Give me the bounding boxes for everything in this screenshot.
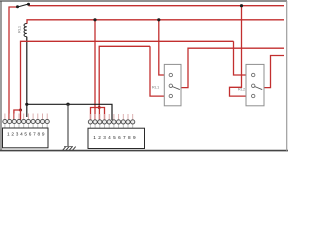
wire red drop to connector pin 4 — [20, 110, 22, 120]
connector J2 pin stems — [90, 114, 132, 120]
svg-text:123456789: 123456789 — [7, 132, 46, 137]
relay RL2 pin top — [252, 73, 255, 76]
wire black drop to connector 1 pin — [26, 104, 28, 117]
node junction H2 x158.8 — [157, 18, 160, 21]
wire red H2 drop to relay RL1 top contact — [159, 20, 169, 75]
node junction H1 x241.5 — [240, 4, 243, 7]
relay RL1 contact box — [164, 64, 181, 105]
border frame bottom — [0, 150, 288, 152]
wire red H3 drop to relay RL2 top contact — [234, 41, 252, 75]
border frame top — [0, 0, 287, 2]
connector J2 lower stubs — [90, 124, 132, 128]
connector J1 pads — [3, 119, 50, 123]
node junction above connector 2 — [98, 106, 101, 109]
wire red branch pin3 connector 2 — [98, 108, 100, 121]
inductor coil RL1 — [24, 24, 27, 37]
wire red rail H2 — [27, 20, 284, 24]
wire grey ground drop — [67, 104, 69, 146]
connector J1 body — [3, 128, 49, 148]
border frame right — [286, 1, 288, 151]
switch contact node left — [16, 5, 19, 8]
wire black coil to bottom bus — [26, 37, 28, 105]
relay RL1 lever — [172, 87, 180, 90]
svg-text:123456789: 123456789 — [93, 135, 138, 140]
switch contact node right — [27, 3, 30, 6]
svg-text:RL1: RL1 — [152, 84, 160, 89]
node junction black bus left — [25, 103, 28, 106]
relay RL1 pin top — [169, 73, 172, 76]
wire red jog to connector pin 3 — [14, 110, 21, 120]
connector J1 lower stubs — [5, 124, 47, 128]
svg-text:RL2: RL2 — [238, 87, 246, 92]
wire red rail H6 from relay RL2 common — [264, 56, 284, 88]
wire red rail H5 from relay RL1 common — [181, 48, 284, 87]
wire red rail H3 — [21, 41, 234, 110]
relay RL2 contact box — [246, 64, 264, 105]
relay RL1 pin common — [169, 84, 172, 87]
ground symbol — [63, 147, 76, 151]
node junction H3 bottom — [19, 109, 22, 112]
wire red top rail H1 — [29, 5, 285, 7]
wire red H2 drop to connector 2 pin2 — [94, 20, 96, 120]
svg-text:RL1: RL1 — [17, 25, 22, 33]
node junction H2 x94.7 — [93, 18, 96, 21]
wire red H4 to relay RL1 NC contact — [150, 46, 169, 96]
wire red branch pin4 connector 2 — [99, 108, 104, 121]
border frame left — [0, 1, 2, 151]
wire red rail H4 — [99, 46, 150, 107]
connector J2 pads — [88, 120, 134, 124]
wire black bottom bus — [27, 104, 112, 120]
connector J2 body — [88, 128, 145, 148]
relay RL1 pin bottom — [169, 94, 172, 97]
relay RL2 lever — [255, 87, 263, 90]
relay RL2 pin bottom — [252, 94, 255, 97]
connector J1 pin stems — [5, 114, 47, 120]
wire red switch left lead — [9, 7, 18, 120]
switch SW1 lever — [18, 4, 29, 7]
relay RL2 pin common — [252, 84, 255, 87]
wire red H1 drop to relay RL2 NC contact — [230, 6, 252, 96]
wire red branch pin1 connector 2 — [91, 108, 100, 121]
node junction black bus ground tap — [66, 103, 69, 106]
